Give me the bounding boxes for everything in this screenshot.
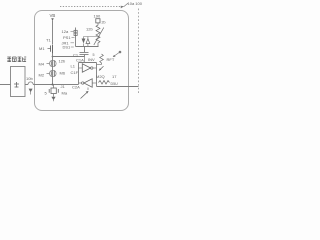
svg-text:12b: 12b bbox=[86, 27, 93, 32]
svg-text:M1: M1 bbox=[39, 46, 45, 51]
svg-text:190: 190 bbox=[94, 14, 101, 19]
svg-text:DS1: DS1 bbox=[63, 45, 72, 50]
svg-text:12a: 12a bbox=[62, 29, 69, 34]
svg-text:M2: M2 bbox=[39, 73, 45, 78]
svg-text:C2A: C2A bbox=[72, 85, 80, 90]
svg-text:M4: M4 bbox=[39, 62, 45, 67]
svg-text:Ma: Ma bbox=[62, 91, 68, 96]
svg-text:D5U: D5U bbox=[111, 82, 119, 86]
svg-text:INV: INV bbox=[88, 57, 95, 62]
svg-text:L1: L1 bbox=[71, 64, 76, 69]
svg-text:PS1: PS1 bbox=[63, 35, 71, 40]
svg-text:2b: 2b bbox=[102, 21, 106, 25]
svg-text:10a 100: 10a 100 bbox=[128, 1, 143, 6]
svg-text:C1F: C1F bbox=[71, 70, 79, 75]
svg-text:VB: VB bbox=[50, 13, 56, 18]
svg-text:RFT: RFT bbox=[107, 57, 115, 62]
svg-text:C1A: C1A bbox=[76, 58, 84, 63]
svg-text:10b: 10b bbox=[26, 76, 33, 81]
svg-text:17: 17 bbox=[112, 74, 117, 79]
svg-text:M6: M6 bbox=[60, 71, 66, 76]
svg-text:T1: T1 bbox=[46, 38, 51, 43]
svg-text:12b: 12b bbox=[59, 59, 66, 64]
svg-text:M2Q: M2Q bbox=[96, 74, 105, 79]
